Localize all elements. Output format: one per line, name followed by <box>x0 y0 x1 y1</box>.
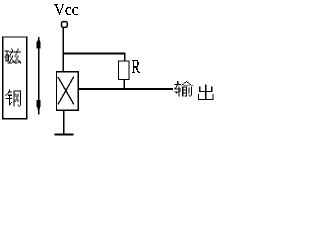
label R <box>132 60 140 73</box>
hall element U1 <box>57 72 79 111</box>
wire Vcc to resistor horizontal <box>62 53 125 55</box>
arrow magnet field double arrow <box>37 37 41 115</box>
wire R bottom lead <box>123 79 125 89</box>
wire R top lead <box>124 53 126 62</box>
ground <box>55 134 74 136</box>
label 输出 (output) <box>175 81 214 100</box>
magnet box <box>3 37 27 119</box>
label Vcc <box>54 4 78 15</box>
label 钢 <box>6 89 21 106</box>
wire Vcc vertical <box>62 28 64 73</box>
wire ground lead <box>63 110 65 133</box>
resistor R1 <box>119 61 130 80</box>
terminal Vcc pin <box>62 22 68 28</box>
wire output horizontal <box>78 88 173 90</box>
label 磁 <box>4 48 21 63</box>
